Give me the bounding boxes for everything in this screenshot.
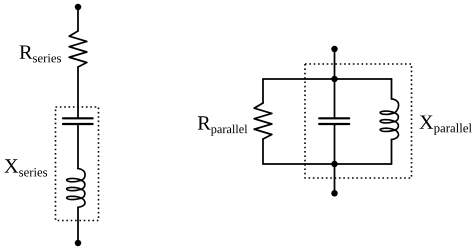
inductor (parallel) <box>380 99 398 140</box>
node: junction top rail / capacitor branch <box>331 76 338 83</box>
node: series circuit bottom terminal <box>75 240 82 247</box>
inductor (series) <box>67 169 85 208</box>
label R_series <box>20 46 61 63</box>
node: junction bottom rail / capacitor branch <box>331 161 338 168</box>
node: series circuit top terminal <box>75 4 82 11</box>
dotted box around X_series <box>56 107 99 221</box>
wire: capacitor to inductor <box>77 124 79 169</box>
wire: bottom rail to bottom terminal <box>334 164 336 193</box>
wire: left branch lower segment <box>262 139 264 164</box>
node: parallel circuit bottom terminal <box>331 190 338 197</box>
resistor R_parallel <box>254 103 272 139</box>
label X_parallel <box>419 116 471 136</box>
wire: top terminal to R_series <box>77 7 79 31</box>
capacitor (series) bottom plate <box>63 123 93 125</box>
capacitor (parallel) top plate <box>319 117 349 119</box>
wire: top terminal down to top rail <box>334 49 336 79</box>
wire: top rail <box>263 78 392 80</box>
wire: middle branch upper segment <box>334 79 336 118</box>
capacitor (series) top plate <box>63 117 93 119</box>
capacitor (parallel) bottom plate <box>319 123 349 125</box>
label X_series <box>4 159 47 176</box>
wire: right branch lower segment <box>391 140 393 165</box>
wire: left branch upper segment <box>262 79 264 103</box>
wire: bottom rail <box>263 163 392 165</box>
node: parallel circuit top terminal <box>331 46 338 53</box>
label R_parallel <box>198 116 248 135</box>
wire: inductor to bottom terminal <box>77 207 79 243</box>
dotted box around X_parallel <box>305 64 412 178</box>
wire: middle branch lower segment <box>334 124 336 164</box>
resistor R_series <box>69 31 87 67</box>
wire: R_series to capacitor <box>77 67 79 118</box>
wire: right branch upper segment <box>391 79 393 99</box>
